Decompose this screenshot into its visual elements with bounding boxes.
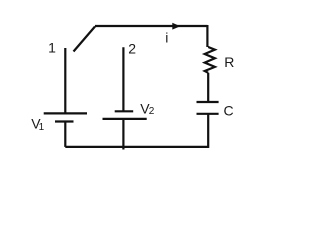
svg-text:i: i [165, 30, 168, 46]
svg-text:R: R [224, 54, 234, 70]
svg-text:C: C [224, 103, 234, 119]
svg-text:1: 1 [48, 39, 56, 55]
svg-text:2: 2 [128, 41, 136, 57]
svg-text:2: 2 [149, 106, 155, 117]
svg-text:1: 1 [39, 122, 45, 133]
